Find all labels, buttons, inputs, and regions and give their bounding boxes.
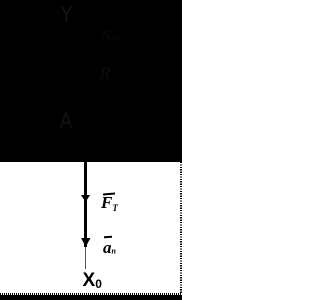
black panel (dark upper half of diagram) xyxy=(0,0,182,162)
vector label F_T xyxy=(101,194,127,212)
overbar of F_T xyxy=(103,192,115,195)
solid bar of bottom border xyxy=(0,295,182,300)
wire: thick vertical force line xyxy=(84,150,87,247)
dotted right border xyxy=(180,162,182,294)
node Y (axis label, faint) xyxy=(59,4,75,25)
node R (radius label, very faint) xyxy=(99,63,114,84)
node A (point label, faint) xyxy=(59,110,74,130)
node X0 (origin label) xyxy=(83,272,109,290)
arrowhead of vector a_n xyxy=(81,238,91,247)
sawtooth comb of bottom border xyxy=(0,293,182,295)
wire: thin gray axis continuation xyxy=(85,247,87,269)
overbar of a_n xyxy=(104,236,112,239)
arrowhead of vector F_T xyxy=(81,195,90,202)
node N (reaction force label, very faint) xyxy=(101,27,125,45)
vector label a_n xyxy=(103,241,125,255)
